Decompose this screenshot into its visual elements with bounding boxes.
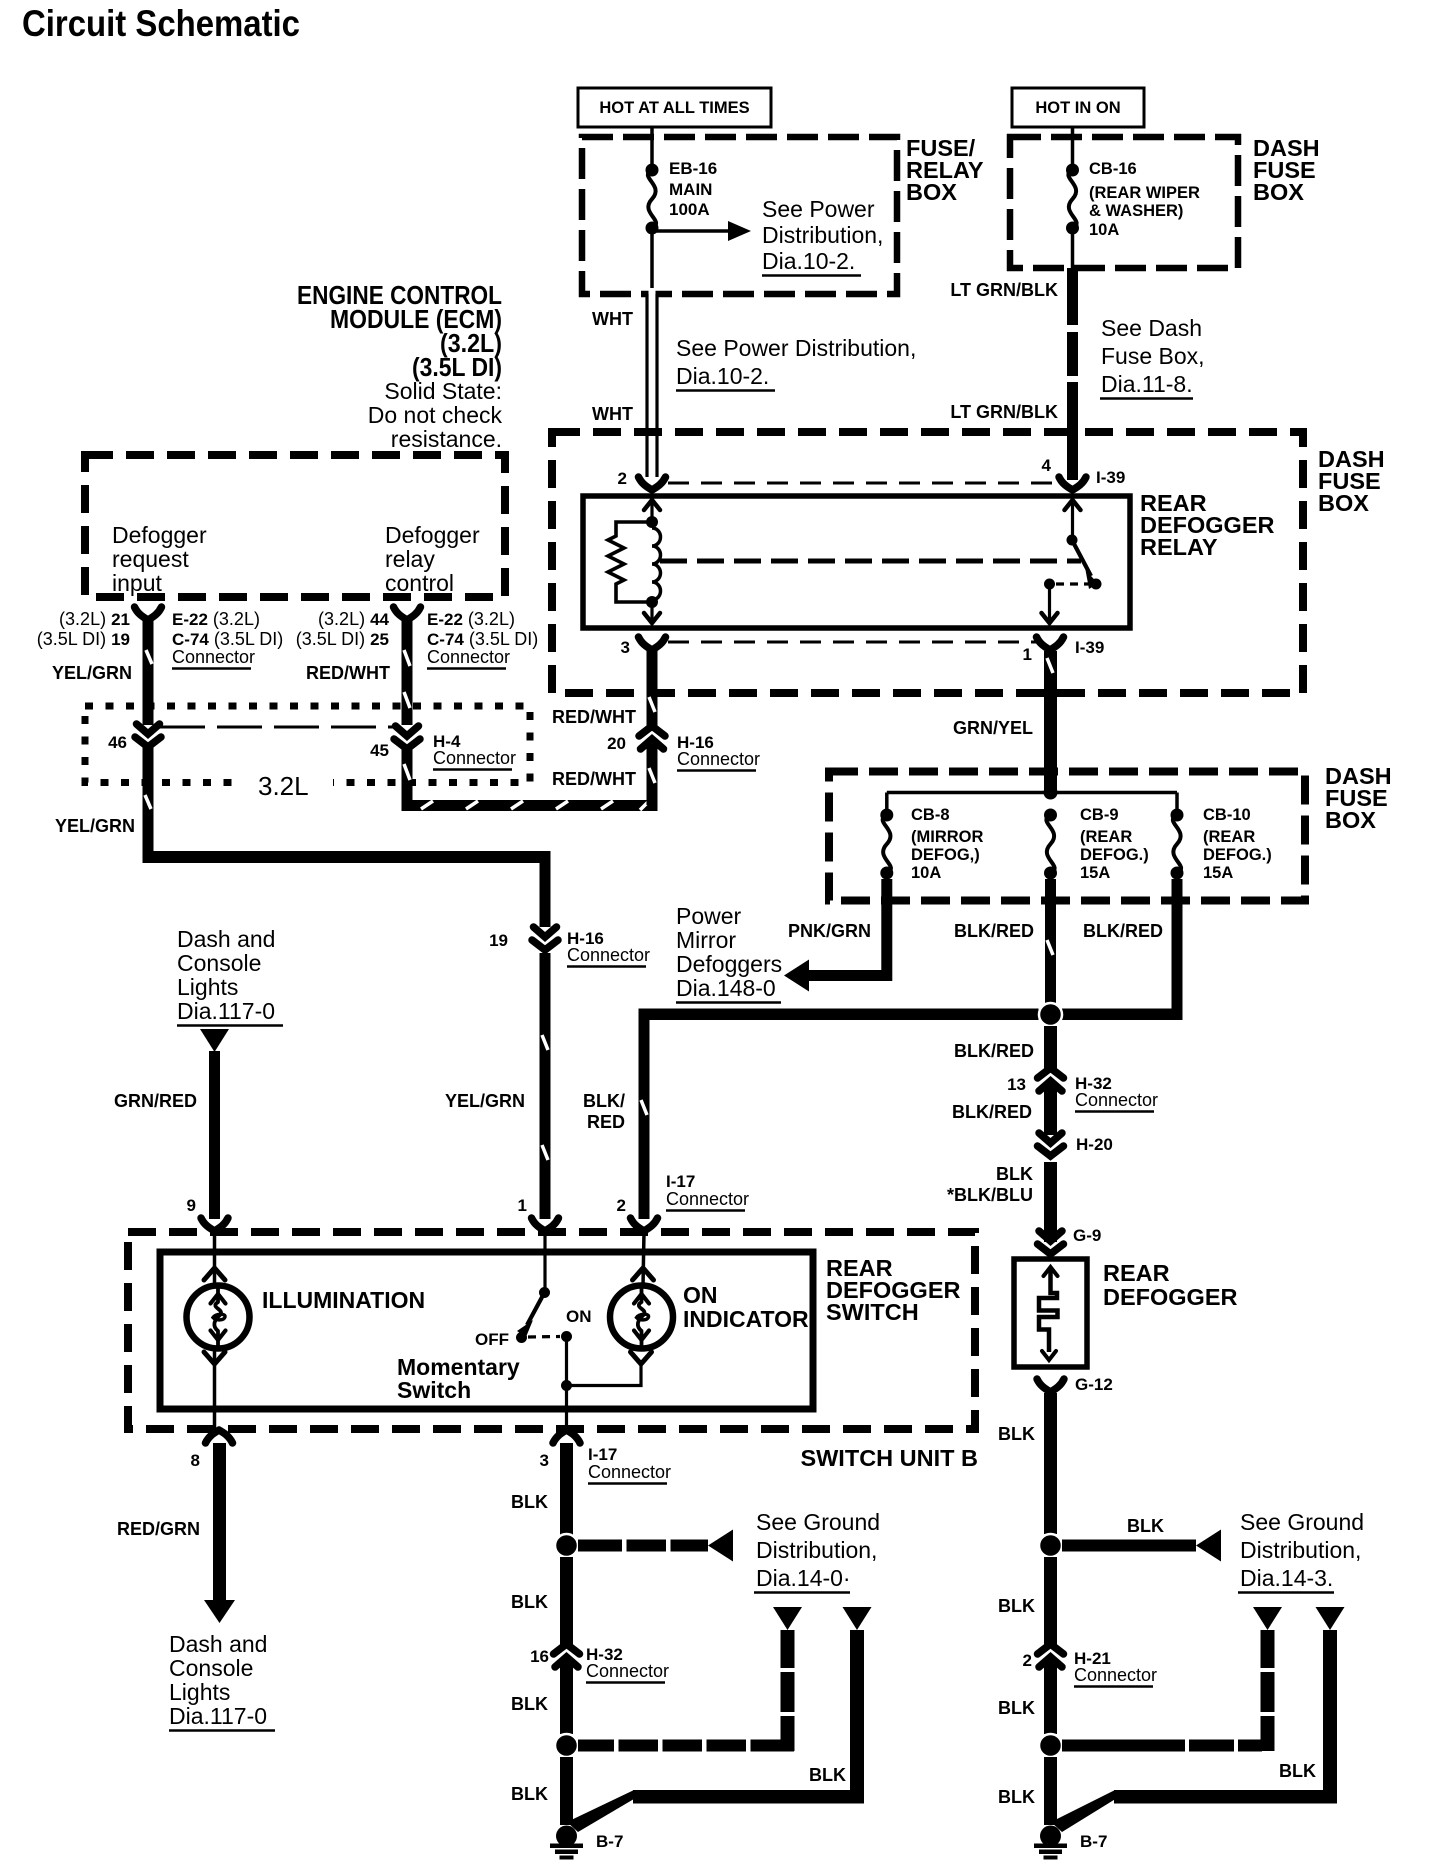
svg-text:(3.2L) 21: (3.2L) 21 — [59, 609, 130, 629]
svg-text:B-7: B-7 — [596, 1832, 623, 1851]
wire switch junction down to pin 3 — [565, 1386, 568, 1431]
wire RED/GRN pin 8 down with arrow — [204, 1443, 235, 1623]
label BLK/RED (branch) — [583, 1091, 625, 1132]
wire WHT double line to relay pin 2 — [647, 288, 657, 477]
pin 1 fork — [518, 1196, 559, 1231]
note See Ground Distribution Dia.14-0 — [754, 1509, 880, 1593]
svg-text:C-74 (3.5L DI): C-74 (3.5L DI) — [427, 629, 538, 649]
wire pin 9 into illumination bulb — [204, 1232, 225, 1286]
svg-text:Do not check: Do not check — [368, 402, 503, 428]
svg-text:(REAR WIPER: (REAR WIPER — [1089, 184, 1200, 202]
wire dashed stub to ground distribution left — [578, 1530, 733, 1562]
switch unit B outer box (dashed) — [128, 1232, 975, 1429]
svg-text:DEFOGGER: DEFOGGER — [1103, 1284, 1238, 1310]
wire LT GRN/BLK thick — [1065, 268, 1080, 480]
wire BLK below H-21 — [1044, 1661, 1057, 1734]
svg-text:BLK: BLK — [809, 1765, 846, 1785]
pin 2 fork — [617, 1196, 658, 1231]
wire GRN/YEL pin1 to fuse box — [1044, 651, 1057, 792]
note See Dash Fuse Box Dia.11-8 — [1100, 315, 1205, 399]
node relay switch fixed contact — [1044, 579, 1055, 590]
svg-text:GRN/YEL: GRN/YEL — [953, 718, 1033, 738]
svg-text:HOT IN ON: HOT IN ON — [1035, 99, 1120, 117]
svg-text:BLK: BLK — [998, 1596, 1035, 1616]
connector 20 H-16 — [607, 726, 760, 771]
node relay coil bottom junction — [646, 596, 658, 608]
svg-text:(3.2L) 44: (3.2L) 44 — [318, 609, 389, 629]
svg-text:Mirror: Mirror — [676, 927, 736, 953]
wire RED/WHT below 20 — [647, 743, 658, 805]
svg-text:H-20: H-20 — [1076, 1135, 1113, 1154]
svg-text:CB-16: CB-16 — [1089, 160, 1137, 178]
svg-text:(REAR: (REAR — [1203, 828, 1255, 846]
svg-text:relay: relay — [385, 546, 435, 572]
svg-text:100A: 100A — [669, 200, 710, 219]
connector 2 H-21 — [1023, 1644, 1158, 1687]
svg-text:2: 2 — [1023, 1651, 1032, 1670]
svg-text:BOX: BOX — [1253, 179, 1304, 205]
svg-text:SWITCH: SWITCH — [826, 1299, 919, 1325]
node switch output junction — [561, 1380, 572, 1391]
svg-text:DEFOG.): DEFOG.) — [1080, 846, 1149, 864]
wire pin 2 into ON indicator bulb — [633, 1232, 654, 1286]
svg-text:Dia.148-0: Dia.148-0 — [676, 975, 776, 1001]
svg-text:Connector: Connector — [567, 945, 650, 965]
svg-text:RELAY: RELAY — [1140, 534, 1218, 560]
svg-text:Dia.14-3.: Dia.14-3. — [1240, 1565, 1333, 1591]
node relay switch moving contact — [1091, 579, 1102, 590]
svg-text:C-74 (3.5L DI): C-74 (3.5L DI) — [172, 629, 283, 649]
label (3.2L) 44 / (3.5L DI) 25 — [296, 609, 390, 649]
svg-text:Dia.117-0: Dia.117-0 — [169, 1703, 267, 1729]
svg-text:13: 13 — [1007, 1075, 1026, 1094]
relay switch lever — [1072, 540, 1098, 589]
svg-text:Switch: Switch — [397, 1377, 471, 1403]
svg-text:10A: 10A — [911, 864, 941, 882]
svg-text:Dia.117-0: Dia.117-0 — [177, 998, 275, 1024]
svg-text:BLK/RED: BLK/RED — [954, 1041, 1034, 1061]
svg-text:OFF: OFF — [475, 1330, 509, 1349]
svg-text:Dia.10-2.: Dia.10-2. — [762, 248, 855, 274]
wire HOT IN ON to CB-16 — [1071, 127, 1075, 170]
relay switch arrow down — [1042, 589, 1058, 623]
wire CB-9 down to junction — [1045, 879, 1056, 1003]
wire mechanical link (dashed) — [660, 559, 1081, 564]
node relay switch pivot — [1067, 535, 1078, 546]
connector 46 chevrons — [108, 724, 161, 752]
wire GRN/RED down to pin 9 — [209, 1051, 220, 1219]
node junction left BLK 2 — [555, 1734, 578, 1757]
label ON INDICATOR — [683, 1282, 809, 1332]
svg-text:YEL/GRN: YEL/GRN — [52, 663, 132, 683]
svg-text:RED/GRN: RED/GRN — [117, 1519, 200, 1539]
node junction right BLK — [1039, 1534, 1062, 1557]
wire ON contact down to junction — [565, 1337, 568, 1386]
wire HOT AT ALL TIMES to EB-16 — [650, 127, 654, 170]
svg-text:YEL/GRN: YEL/GRN — [55, 816, 135, 836]
wire BLK to H-32 (16) — [560, 1557, 573, 1647]
svg-text:Connector: Connector — [433, 748, 516, 768]
svg-text:BLK: BLK — [998, 1787, 1035, 1807]
svg-text:46: 46 — [108, 733, 127, 752]
label REAR DEFOGGER RELAY — [1140, 490, 1275, 560]
circuit breaker EB-16 MAIN 100A — [646, 159, 718, 235]
wire fuse bus — [887, 791, 1177, 795]
pin 21/19 fork ECM — [135, 607, 162, 620]
note Dash and Console Lights Dia.117-0 (top) — [177, 926, 283, 1026]
svg-text:See Ground: See Ground — [756, 1509, 880, 1535]
label Defogger request input — [112, 522, 207, 596]
wire BLK below H-32 — [560, 1661, 573, 1734]
connector 45 chevrons H-4 — [370, 726, 516, 770]
wire horizontal BLK/RED to I-17 branch — [639, 1009, 1039, 1021]
rear defogger grid element — [1039, 1267, 1058, 1360]
svg-text:DEFOG.): DEFOG.) — [1203, 846, 1272, 864]
lamp ON INDICATOR bulb — [610, 1286, 673, 1349]
svg-text:BLK: BLK — [1127, 1516, 1164, 1536]
svg-text:ON: ON — [566, 1307, 592, 1326]
dash fuse box big (dashed) — [552, 432, 1303, 693]
wire solid left to ground B-7 — [567, 1630, 864, 1832]
svg-text:4: 4 — [1042, 456, 1052, 475]
pin 44/25 fork ECM — [394, 607, 421, 620]
svg-text:8: 8 — [191, 1451, 200, 1470]
svg-text:Connector: Connector — [588, 1462, 671, 1482]
svg-text:G-9: G-9 — [1073, 1226, 1101, 1245]
node momentary switch pivot — [539, 1287, 550, 1298]
svg-text:E-22 (3.2L): E-22 (3.2L) — [427, 609, 515, 629]
svg-text:Distribution,: Distribution, — [1240, 1537, 1361, 1563]
svg-text:CB-9: CB-9 — [1080, 806, 1119, 824]
label 3.2L — [243, 770, 333, 801]
svg-text:RED/WHT: RED/WHT — [552, 707, 636, 727]
svg-text:CB-8: CB-8 — [911, 806, 950, 824]
svg-text:3: 3 — [621, 638, 630, 657]
svg-text:E-22 (3.2L): E-22 (3.2L) — [172, 609, 260, 629]
svg-text:Defogger: Defogger — [112, 522, 207, 548]
svg-text:(3.5L DI) 19: (3.5L DI) 19 — [37, 629, 130, 649]
connector 19 H-16 — [489, 927, 650, 967]
inductor L relay coil — [652, 528, 661, 600]
svg-text:Distribution,: Distribution, — [762, 222, 883, 248]
wire CB-10 elbow to junction — [1062, 879, 1183, 1020]
svg-text:Dia.14-0·: Dia.14-0· — [756, 1565, 851, 1591]
node main junction — [1039, 1003, 1062, 1026]
wire dashed stub right to ground triangles left — [578, 1740, 794, 1752]
wire PNK/GRN elbow with arrow to power mirror defoggers — [784, 879, 892, 992]
relay coil arrow down — [644, 602, 660, 623]
svg-text:INDICATOR: INDICATOR — [683, 1306, 809, 1332]
label Momentary Switch — [397, 1354, 520, 1403]
svg-text:RED/WHT: RED/WHT — [306, 663, 390, 683]
wire junction to ON indicator bulb — [567, 1360, 642, 1386]
wire BLK to ground left — [560, 1757, 573, 1825]
svg-text:BLK: BLK — [511, 1784, 548, 1804]
svg-text:input: input — [112, 570, 162, 596]
label I-17 Connector (top) — [666, 1172, 749, 1211]
fuse/relay box (dashed) — [582, 137, 897, 294]
svg-text:MAIN: MAIN — [669, 180, 712, 199]
svg-text:3: 3 — [540, 1451, 549, 1470]
label ENGINE CONTROL MODULE (ECM) — [297, 280, 502, 452]
wire RED/WHT x652 up to pin3 — [647, 651, 658, 731]
arrow from dash lights — [200, 1029, 229, 1052]
svg-text:resistance.: resistance. — [391, 426, 502, 452]
note See Power Distribution Dia.10-2 (top) — [762, 196, 883, 276]
label E-22 C-74 Connector (right) — [427, 609, 538, 669]
circuit breaker CB-16 REAR WIPER & WASHER 10A — [1066, 160, 1200, 239]
svg-text:45: 45 — [370, 741, 389, 760]
wire dashed OFF-ON — [528, 1335, 560, 1339]
svg-text:BLK: BLK — [998, 1698, 1035, 1718]
svg-text:WHT: WHT — [592, 404, 633, 424]
svg-text:HOT AT ALL TIMES: HOT AT ALL TIMES — [599, 99, 749, 117]
connector G-9 — [1038, 1226, 1102, 1254]
svg-text:Connector: Connector — [1075, 1090, 1158, 1110]
svg-text:19: 19 — [489, 931, 508, 950]
svg-text:ON: ON — [683, 1282, 718, 1308]
svg-text:Console: Console — [169, 1655, 253, 1681]
node junction left BLK — [555, 1534, 578, 1557]
label REAR DEFOGGER SWITCH — [826, 1255, 961, 1325]
svg-text:LT GRN/BLK: LT GRN/BLK — [950, 280, 1058, 300]
wire illumination bulb down to pin 8 — [204, 1348, 225, 1430]
svg-text:See Power Distribution,: See Power Distribution, — [676, 335, 916, 361]
switch unit inner box — [160, 1252, 813, 1409]
wire pin 1 down to momentary switch — [543, 1232, 546, 1292]
wire YEL/GRN from pin 21 down through H-4 — [143, 621, 154, 725]
circuit breaker CB-10 REAR DEFOG 15A — [1171, 793, 1272, 883]
svg-text:Connector: Connector — [677, 749, 760, 769]
svg-text:SWITCH UNIT B: SWITCH UNIT B — [800, 1445, 978, 1471]
note See Power Distribution Dia.10-2 (mid) — [676, 335, 916, 391]
node ON contact — [561, 1331, 572, 1342]
arrow triangle down (left pair left) — [773, 1607, 802, 1630]
wire dashed pin2-pin4 — [668, 482, 1058, 485]
wire EB-16 to box bottom — [650, 228, 654, 294]
wire YEL/GRN 19 down to pin 1 — [540, 953, 551, 1219]
svg-text:BLK: BLK — [511, 1694, 548, 1714]
ground B-7 right — [1034, 1826, 1107, 1860]
wire junction down to H-32 — [1044, 1026, 1057, 1070]
svg-text:ILLUMINATION: ILLUMINATION — [262, 1287, 425, 1313]
svg-text:Connector: Connector — [427, 647, 510, 667]
svg-text:Dia.10-2.: Dia.10-2. — [676, 363, 769, 389]
wire BLK/RED branch elbow down to pin 2 — [639, 1009, 650, 1220]
arrow triangle down (right pair right) — [1316, 1607, 1345, 1630]
svg-text:Circuit Schematic: Circuit Schematic — [22, 3, 300, 44]
wire ON indicator chevron bottom — [631, 1352, 652, 1364]
dash fuse box lower (dashed) — [829, 772, 1305, 901]
note See Ground Distribution Dia.14-3 — [1238, 1509, 1364, 1593]
svg-text:BLK: BLK — [998, 1424, 1035, 1444]
label DASH FUSE BOX (big) — [1318, 446, 1385, 516]
pin 2 fork — [618, 469, 666, 490]
svg-text:(3.5L DI) 25: (3.5L DI) 25 — [296, 629, 389, 649]
svg-text:Distribution,: Distribution, — [756, 1537, 877, 1563]
pin 3 fork — [540, 1430, 580, 1470]
svg-text:16: 16 — [530, 1647, 549, 1666]
H-4 connector box (dashed) — [85, 706, 530, 783]
svg-text:GRN/RED: GRN/RED — [114, 1091, 197, 1111]
svg-text:Lights: Lights — [177, 974, 238, 1000]
wire dashed vertical right-left — [1261, 1630, 1275, 1751]
svg-text:See Ground: See Ground — [1240, 1509, 1364, 1535]
node fuse bus junction — [1044, 786, 1058, 800]
svg-text:RED/WHT: RED/WHT — [552, 769, 636, 789]
svg-text:See Dash: See Dash — [1101, 315, 1202, 341]
svg-text:9: 9 — [187, 1196, 196, 1215]
wire dashed stub right to ground triangles — [1062, 1740, 1262, 1752]
note Dash and Console Lights Dia.117-0 (bottom) — [169, 1631, 275, 1731]
pin 8 fork — [191, 1430, 233, 1470]
wire YEL/GRN elbow long run right — [143, 851, 551, 927]
svg-text:G-12: G-12 — [1075, 1375, 1113, 1394]
ground B-7 left — [550, 1826, 623, 1860]
wire BLK pin 3 down — [560, 1443, 573, 1535]
svg-text:Power: Power — [676, 903, 742, 929]
svg-text:WHT: WHT — [592, 309, 633, 329]
svg-text:*BLK/BLU: *BLK/BLU — [947, 1185, 1033, 1205]
svg-text:2: 2 — [618, 469, 627, 488]
wire dashed contact link — [1056, 582, 1089, 585]
svg-text:BOX: BOX — [1318, 490, 1369, 516]
svg-text:B-7: B-7 — [1080, 1832, 1107, 1851]
arrow to power distribution — [652, 221, 751, 241]
wire solid right to ground B-7 — [1051, 1630, 1337, 1832]
svg-text:CB-10: CB-10 — [1203, 806, 1251, 824]
wire RED/WHT from pin 44 down through H-4 — [402, 621, 413, 725]
svg-text:10A: 10A — [1089, 221, 1119, 239]
wire YEL/GRN below 46 — [143, 745, 154, 857]
svg-text:Connector: Connector — [586, 1661, 669, 1681]
svg-text:BLK: BLK — [511, 1492, 548, 1512]
svg-text:(MIRROR: (MIRROR — [911, 828, 983, 846]
svg-text:control: control — [385, 570, 454, 596]
svg-text:Dash and: Dash and — [169, 1631, 267, 1657]
wire dashed vertical left pair — [781, 1630, 795, 1751]
svg-text:Connector: Connector — [1074, 1665, 1157, 1685]
svg-text:BLK/RED: BLK/RED — [954, 921, 1034, 941]
node junction right BLK 2 — [1039, 1734, 1062, 1757]
node HOT AT ALL TIMES box — [578, 88, 771, 127]
svg-text:Dash and: Dash and — [177, 926, 275, 952]
label DASH FUSE BOX (top) — [1253, 135, 1320, 205]
wire BLK G-12 down — [1044, 1393, 1057, 1534]
arrow triangle down (right pair left) — [1253, 1607, 1282, 1630]
relay coil arrow up — [644, 500, 660, 522]
wire dashed pin3-pin1 — [668, 641, 1036, 644]
ECM box (dashed) — [85, 455, 505, 597]
svg-text:BLK: BLK — [1279, 1761, 1316, 1781]
svg-text:Connector: Connector — [666, 1189, 749, 1209]
svg-text:20: 20 — [607, 734, 626, 753]
svg-text:RED: RED — [587, 1112, 625, 1132]
dash fuse box top (dashed) — [1010, 137, 1238, 268]
connector 13 H-32 — [1007, 1068, 1158, 1112]
svg-text:& WASHER): & WASHER) — [1089, 202, 1183, 220]
svg-text:15A: 15A — [1080, 864, 1110, 882]
connector H-20 — [1038, 1133, 1113, 1156]
svg-text:I-39: I-39 — [1075, 638, 1104, 657]
svg-text:BOX: BOX — [1325, 807, 1376, 833]
svg-text:15A: 15A — [1203, 864, 1233, 882]
wire CB-16 to box bottom — [1071, 228, 1075, 268]
momentary switch lever — [517, 1293, 545, 1338]
svg-text:Fuse Box,: Fuse Box, — [1101, 343, 1205, 369]
label E-22 C-74 Connector (left) — [172, 609, 283, 669]
circuit breaker CB-8 MIRROR DEFOG 10A — [880, 793, 983, 883]
svg-text:Defoggers: Defoggers — [676, 951, 782, 977]
svg-text:BLK: BLK — [996, 1164, 1033, 1184]
circuit breaker CB-9 REAR DEFOG 15A — [1044, 806, 1149, 882]
wire dashed 46-45 — [160, 726, 396, 729]
svg-text:3.2L: 3.2L — [258, 771, 309, 801]
svg-text:1: 1 — [1023, 645, 1032, 664]
svg-text:(REAR: (REAR — [1080, 828, 1132, 846]
wire H-20 to G-9 — [1044, 1162, 1057, 1242]
svg-text:EB-16: EB-16 — [669, 159, 717, 178]
svg-text:DEFOG,): DEFOG,) — [911, 846, 980, 864]
svg-text:BLK/: BLK/ — [583, 1091, 625, 1111]
svg-text:request: request — [112, 546, 189, 572]
pin 9 fork — [187, 1196, 228, 1231]
relay U1 box REAR DEFOGGER RELAY — [583, 496, 1130, 628]
svg-text:Console: Console — [177, 950, 261, 976]
rear defogger element box — [1014, 1259, 1087, 1367]
wire BLK to H-21 — [1044, 1557, 1057, 1647]
svg-text:Connector: Connector — [172, 647, 255, 667]
lamp ILLUMINATION bulb — [187, 1286, 250, 1349]
label REAR DEFOGGER — [1103, 1260, 1238, 1310]
svg-text:BLK/RED: BLK/RED — [952, 1102, 1032, 1122]
connector G-12 fork — [1037, 1375, 1113, 1394]
pin 4 fork I-39 — [1042, 456, 1126, 490]
svg-text:LT GRN/BLK: LT GRN/BLK — [950, 402, 1058, 422]
svg-text:1: 1 — [518, 1196, 527, 1215]
svg-text:YEL/GRN: YEL/GRN — [445, 1091, 525, 1111]
label Defogger relay control — [385, 522, 480, 596]
node OFF contact — [516, 1332, 527, 1343]
label FUSE/RELAY BOX — [906, 135, 984, 205]
label (3.2L) 21 / (3.5L DI) 19 — [37, 609, 130, 649]
svg-text:Defogger: Defogger — [385, 522, 480, 548]
node relay coil top junction — [646, 516, 658, 528]
svg-text:BLK/RED: BLK/RED — [1083, 921, 1163, 941]
svg-text:I-39: I-39 — [1096, 468, 1125, 487]
relay switch arrow up — [1065, 500, 1081, 540]
arrow triangle down (left pair right) — [843, 1607, 872, 1630]
wire H-32 to H-20 — [1044, 1085, 1057, 1135]
node HOT IN ON box — [1012, 88, 1144, 127]
label I-17 Connector (bottom) — [588, 1445, 671, 1484]
resistor R relay — [608, 522, 652, 602]
svg-text:Solid State:: Solid State: — [384, 378, 502, 404]
note Power Mirror Defoggers Dia.148-0 — [676, 903, 782, 1003]
label DASH FUSE BOX (lower) — [1325, 763, 1392, 833]
connector 16 H-32 — [530, 1644, 669, 1683]
svg-text:2: 2 — [617, 1196, 626, 1215]
svg-text:BOX: BOX — [906, 179, 957, 205]
wire RED/WHT elbow to H-16 (hatched) — [402, 747, 658, 811]
wire stub to ground distribution right — [1062, 1530, 1221, 1562]
pin 3 fork — [621, 637, 666, 657]
pin 1 fork I-39 — [1023, 637, 1105, 664]
svg-text:Dia.11-8.: Dia.11-8. — [1101, 371, 1193, 397]
wire BLK to ground right — [1044, 1757, 1057, 1825]
svg-text:See Power: See Power — [762, 196, 875, 222]
svg-text:Lights: Lights — [169, 1679, 230, 1705]
